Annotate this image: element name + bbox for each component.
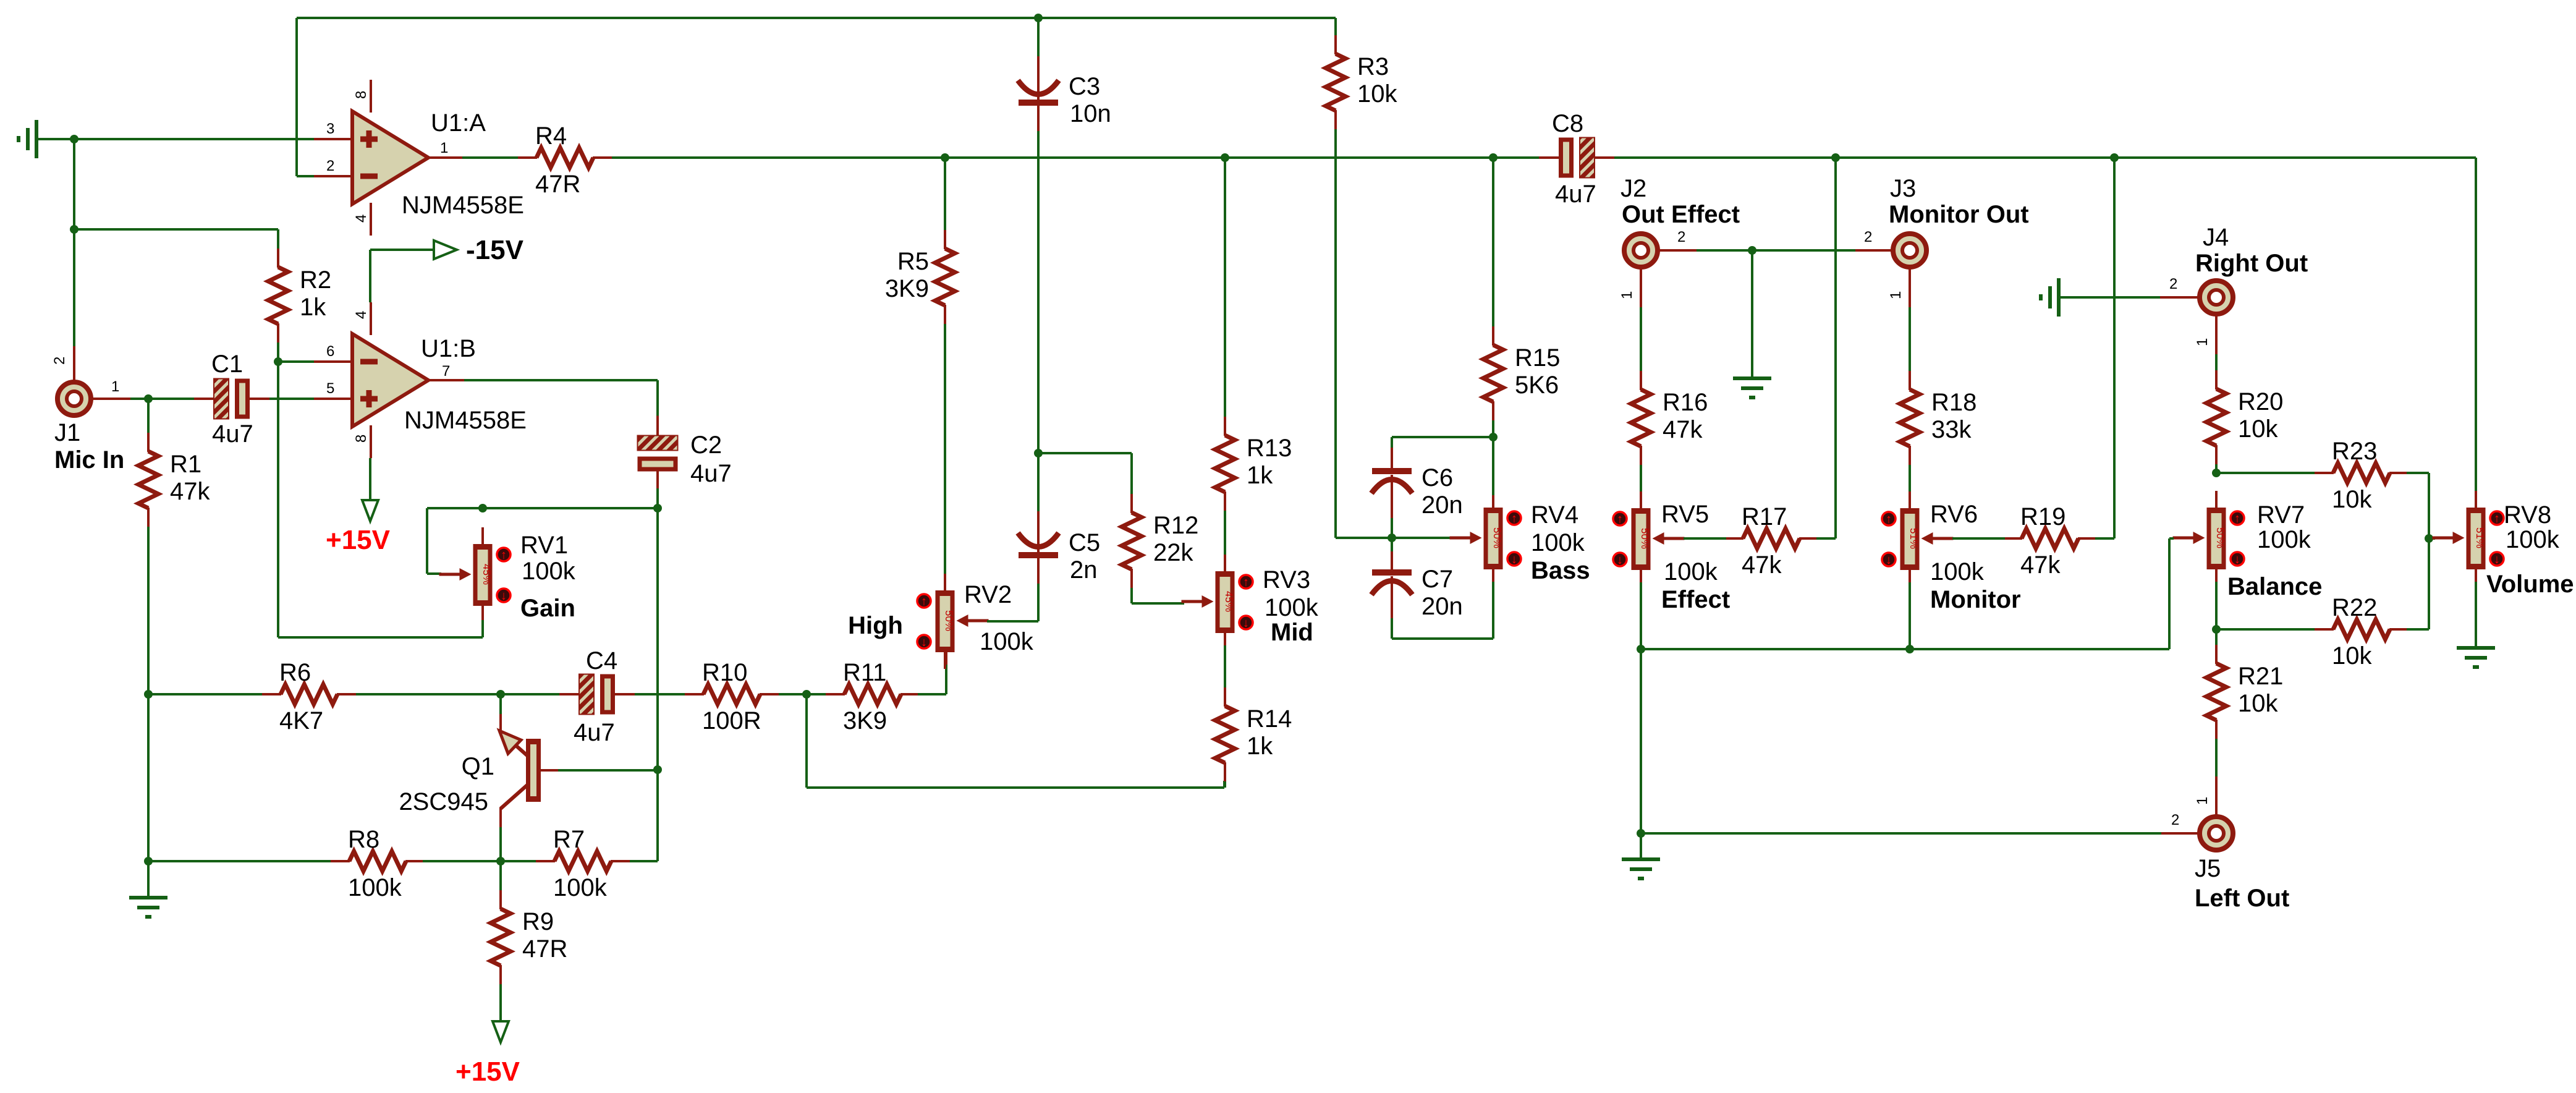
svg-text:4: 4: [353, 311, 370, 319]
svg-text:+15V: +15V: [326, 525, 391, 555]
svg-text:C6: C6: [1421, 464, 1453, 491]
svg-text:2: 2: [2171, 812, 2179, 828]
svg-text:U1:B: U1:B: [421, 335, 476, 362]
svg-text:J1: J1: [54, 419, 80, 446]
svg-text:R5: R5: [897, 248, 929, 275]
svg-text:↑: ↑: [1886, 512, 1892, 526]
svg-text:100k: 100k: [348, 874, 402, 901]
svg-text:Volume: Volume: [2486, 571, 2574, 598]
svg-text:7: 7: [442, 363, 450, 380]
svg-text:Left Out: Left Out: [2195, 885, 2289, 912]
svg-text:Effect: Effect: [1661, 586, 1730, 613]
svg-text:1: 1: [2194, 797, 2211, 805]
svg-text:R15: R15: [1515, 344, 1560, 372]
svg-text:R22: R22: [2332, 594, 2377, 621]
svg-text:↑: ↑: [2494, 512, 2500, 525]
svg-text:Monitor: Monitor: [1930, 586, 2021, 613]
svg-text:Mid: Mid: [1271, 619, 1313, 646]
svg-text:R17: R17: [1742, 503, 1787, 530]
svg-text:5: 5: [326, 380, 334, 397]
svg-text:1: 1: [2194, 338, 2211, 346]
svg-text:R21: R21: [2238, 663, 2283, 690]
svg-text:47R: 47R: [535, 171, 580, 198]
svg-text:↑: ↑: [1511, 512, 1517, 525]
svg-text:4: 4: [353, 215, 370, 223]
svg-text:RV6: RV6: [1930, 501, 1978, 528]
svg-text:8: 8: [353, 435, 370, 443]
svg-text:RV8: RV8: [2504, 501, 2551, 529]
svg-text:R19: R19: [2020, 503, 2065, 530]
svg-text:100k: 100k: [553, 874, 608, 901]
svg-text:47k: 47k: [1663, 416, 1703, 443]
svg-text:↓: ↓: [1243, 616, 1249, 630]
svg-text:20n: 20n: [1421, 593, 1463, 620]
svg-text:100k: 100k: [1930, 558, 1985, 585]
svg-text:-15V: -15V: [466, 235, 524, 265]
svg-text:↑: ↑: [1243, 576, 1249, 589]
svg-text:R18: R18: [1931, 389, 1976, 416]
svg-text:High: High: [848, 612, 903, 639]
svg-text:100k: 100k: [2257, 526, 2311, 553]
svg-text:1: 1: [1619, 291, 1635, 299]
svg-text:R2: R2: [300, 266, 331, 294]
svg-text:C4: C4: [586, 647, 617, 674]
svg-text:↓: ↓: [501, 589, 507, 603]
svg-text:↑: ↑: [1617, 512, 1623, 526]
svg-text:J4: J4: [2203, 224, 2229, 251]
svg-text:6: 6: [326, 343, 334, 360]
svg-text:RV7: RV7: [2257, 501, 2305, 529]
svg-text:↑: ↑: [2234, 512, 2240, 525]
svg-text:51%: 51%: [2474, 527, 2486, 548]
svg-text:J2: J2: [1621, 175, 1646, 202]
svg-text:J3: J3: [1890, 175, 1916, 202]
svg-text:Gain: Gain: [520, 595, 575, 622]
svg-text:R6: R6: [279, 659, 311, 686]
svg-text:10k: 10k: [2332, 642, 2372, 670]
svg-text:33k: 33k: [1931, 416, 1972, 443]
svg-text:4u7: 4u7: [574, 719, 615, 746]
svg-text:↑: ↑: [501, 548, 507, 562]
svg-text:10k: 10k: [2238, 415, 2278, 443]
svg-text:10k: 10k: [2332, 486, 2372, 513]
svg-text:100k: 100k: [980, 628, 1034, 655]
svg-text:R4: R4: [535, 122, 567, 150]
svg-text:1: 1: [440, 140, 448, 156]
svg-text:1k: 1k: [1247, 733, 1273, 760]
svg-text:100k: 100k: [1531, 529, 1585, 556]
svg-text:2: 2: [2169, 276, 2177, 292]
svg-text:1: 1: [111, 378, 119, 395]
svg-text:2: 2: [1677, 229, 1685, 245]
svg-text:4u7: 4u7: [690, 460, 732, 487]
svg-text:3: 3: [326, 121, 334, 137]
svg-text:1k: 1k: [300, 294, 326, 321]
svg-text:Bass: Bass: [1531, 557, 1590, 584]
svg-text:100k: 100k: [2506, 526, 2560, 553]
svg-text:8: 8: [353, 91, 370, 99]
svg-text:↓: ↓: [1617, 553, 1623, 567]
svg-text:100k: 100k: [522, 558, 576, 585]
svg-text:R3: R3: [1357, 53, 1389, 80]
svg-text:1: 1: [1888, 291, 1904, 299]
svg-text:RV2: RV2: [964, 581, 1012, 608]
svg-text:47k: 47k: [2020, 551, 2061, 579]
svg-text:3K9: 3K9: [885, 275, 929, 302]
svg-text:4K7: 4K7: [279, 707, 323, 734]
svg-text:50%: 50%: [1639, 528, 1651, 549]
svg-text:RV1: RV1: [520, 532, 568, 559]
svg-text:1k: 1k: [1247, 462, 1273, 489]
svg-text:↓: ↓: [1511, 553, 1517, 566]
svg-text:100k: 100k: [1265, 594, 1319, 621]
svg-text:NJM4558E: NJM4558E: [402, 192, 524, 219]
svg-text:50%: 50%: [943, 610, 955, 631]
svg-text:47R: 47R: [522, 935, 567, 963]
svg-text:↓: ↓: [921, 636, 927, 649]
svg-text:RV3: RV3: [1263, 566, 1310, 593]
svg-text:J5: J5: [2195, 855, 2221, 882]
svg-text:↓: ↓: [2494, 553, 2500, 566]
svg-text:C2: C2: [690, 432, 722, 459]
svg-text:R12: R12: [1153, 512, 1198, 539]
svg-text:R20: R20: [2238, 388, 2283, 415]
svg-text:4u7: 4u7: [212, 420, 253, 448]
svg-text:R8: R8: [348, 826, 379, 853]
svg-text:Balance: Balance: [2227, 573, 2322, 600]
svg-text:Monitor Out: Monitor Out: [1889, 201, 2029, 228]
svg-text:C3: C3: [1069, 73, 1100, 100]
svg-text:R13: R13: [1247, 435, 1292, 462]
svg-text:RV5: RV5: [1661, 501, 1709, 528]
svg-text:10k: 10k: [2238, 690, 2278, 717]
svg-text:R16: R16: [1663, 389, 1708, 416]
svg-text:2: 2: [326, 158, 334, 174]
svg-text:R14: R14: [1247, 705, 1292, 733]
svg-text:45%: 45%: [481, 564, 493, 585]
svg-text:100k: 100k: [1664, 558, 1718, 585]
svg-text:3K9: 3K9: [843, 707, 887, 734]
svg-text:50%: 50%: [2214, 527, 2226, 548]
svg-text:2: 2: [1864, 229, 1872, 245]
svg-text:R11: R11: [843, 659, 886, 686]
svg-text:C7: C7: [1421, 566, 1453, 593]
svg-text:2n: 2n: [1070, 556, 1098, 584]
svg-text:R1: R1: [170, 451, 201, 478]
svg-text:100R: 100R: [702, 707, 761, 734]
svg-text:Mic In: Mic In: [54, 446, 124, 474]
svg-text:50%: 50%: [1491, 527, 1503, 548]
svg-text:NJM4558E: NJM4558E: [404, 407, 527, 434]
svg-text:20n: 20n: [1421, 491, 1463, 519]
svg-text:10k: 10k: [1357, 80, 1397, 108]
svg-text:47k: 47k: [1742, 551, 1782, 579]
svg-text:2: 2: [51, 357, 68, 365]
svg-text:↑: ↑: [921, 595, 927, 608]
svg-text:R7: R7: [553, 826, 585, 853]
svg-text:5K6: 5K6: [1515, 372, 1559, 399]
svg-text:U1:A: U1:A: [431, 109, 486, 137]
svg-text:+15V: +15V: [455, 1057, 520, 1087]
svg-text:4u7: 4u7: [1555, 181, 1596, 208]
svg-text:2SC945: 2SC945: [399, 788, 488, 815]
svg-text:22k: 22k: [1153, 539, 1193, 566]
svg-text:45%: 45%: [1223, 591, 1235, 612]
svg-text:C5: C5: [1069, 529, 1100, 556]
svg-text:C1: C1: [211, 351, 243, 378]
svg-text:R23: R23: [2332, 438, 2377, 465]
svg-text:51%: 51%: [1908, 528, 1920, 549]
svg-text:10n: 10n: [1070, 100, 1111, 127]
svg-text:R10: R10: [702, 659, 747, 686]
svg-text:Out Effect: Out Effect: [1622, 201, 1740, 228]
svg-text:C8: C8: [1552, 110, 1583, 137]
svg-text:Right Out: Right Out: [2195, 250, 2308, 277]
svg-text:↓: ↓: [2234, 553, 2240, 566]
svg-text:↓: ↓: [1886, 553, 1892, 567]
svg-text:47k: 47k: [170, 478, 210, 505]
svg-text:Q1: Q1: [462, 753, 494, 780]
svg-text:R9: R9: [522, 908, 554, 935]
svg-text:RV4: RV4: [1531, 501, 1578, 529]
